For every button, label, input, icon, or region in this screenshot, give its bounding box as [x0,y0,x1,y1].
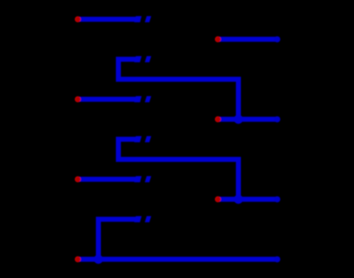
terminal post P2 [215,37,220,42]
break slash pair after W9 stub [134,216,151,222]
terminal post P3 [75,97,80,102]
junction J2 [234,195,243,204]
wire W3 (bracket 1: stub, down, rail, down to junction J1) [118,59,238,119]
junction J1 [234,115,243,124]
wire W5 (junction row 1 horizontal) [218,117,277,122]
wire W1 (top-left stub) [78,17,141,22]
terminal post P1 [75,17,80,22]
break slash pair after W3 stub [134,56,151,62]
wire W6 (bracket 2: stub, down, rail, down to junction J2) [118,139,238,199]
end cap node on W10 [274,256,280,262]
wire W9 (bracket 3: stub and drop to bottom rail) [98,219,136,259]
terminal post P7 [75,257,80,262]
end cap node on W8 [274,196,280,202]
terminal post P5 [75,177,80,182]
break slash pair after W6 stub [134,136,151,142]
break slash pair after W4 [134,96,151,102]
wire W7 (left stub, third group) [78,177,141,182]
break slash pair after W7 [134,176,151,182]
terminal post P4 [215,117,220,122]
wire W10 (bottom rail) [78,257,277,262]
wire W4 (left stub, second group) [78,97,141,102]
junction J3 [94,255,103,264]
end cap node on W2 [274,36,280,42]
wire W8 (junction row 2 horizontal) [218,197,277,202]
break slash pair after W1 [134,16,151,22]
wire W2 (upper-right horizontal) [218,37,277,42]
end cap node on W5 [274,116,280,122]
terminal post P6 [215,197,220,202]
